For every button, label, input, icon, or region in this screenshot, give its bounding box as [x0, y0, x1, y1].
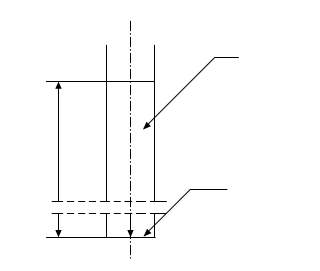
break dashed line 1 — [52, 201, 167, 203]
leader 2 arrowhead — [144, 229, 152, 237]
left wall lower segment — [106, 214, 108, 238]
top edge line — [46, 81, 155, 83]
dimension down arrowhead — [55, 230, 61, 237]
break dashed line 2 — [52, 213, 167, 215]
leader 1 polyline — [144, 58, 239, 129]
leader 2 polyline — [144, 190, 227, 236]
right wall lower segment — [154, 214, 156, 238]
center dimension shaft — [130, 214, 132, 237]
left wall upper segment — [106, 45, 108, 202]
bottom edge line — [46, 237, 156, 239]
right wall upper segment — [154, 45, 156, 202]
center down arrowhead — [127, 230, 133, 237]
centerline — [130, 21, 132, 259]
dimension line upper shaft — [58, 82, 60, 202]
dimension line lower shaft — [58, 214, 60, 237]
leader 1 arrowhead — [143, 122, 151, 130]
dimension up arrowhead — [55, 82, 61, 89]
